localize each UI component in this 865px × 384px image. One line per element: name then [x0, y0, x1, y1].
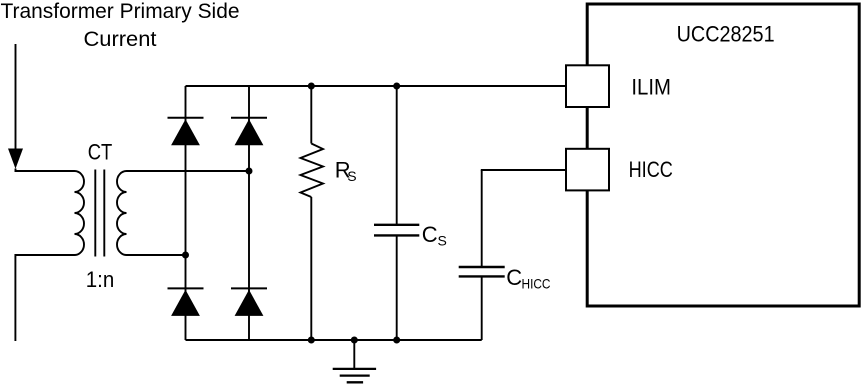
- label CHICC: [506, 265, 550, 291]
- transformer T1 core: [95, 170, 104, 257]
- svg-text:HICC: HICC: [629, 157, 673, 182]
- resistor RS: [301, 86, 324, 340]
- svg-text:S: S: [438, 233, 447, 249]
- pin HICC box: [566, 149, 609, 191]
- node CS bottom: [393, 337, 400, 344]
- node resistor top: [308, 83, 315, 90]
- wire top rail: [186, 85, 567, 87]
- svg-text:ILIM: ILIM: [631, 75, 671, 100]
- pin ILIM box: [566, 65, 609, 107]
- svg-text:S: S: [347, 168, 356, 184]
- wire bottom rail: [186, 339, 482, 341]
- diode D1: [168, 118, 204, 146]
- svg-text:CT: CT: [88, 140, 113, 165]
- wire primary top: [15, 170, 75, 172]
- svg-text:Current: Current: [84, 27, 157, 51]
- IC U1 UCC28251 box: [587, 4, 859, 306]
- label: Transformer Primary Side Current: [1, 0, 240, 51]
- wire primary input with arrow: [8, 44, 23, 171]
- node secondary bottom junction: [182, 252, 189, 259]
- ground: [333, 340, 376, 382]
- wire secondary top to bridge: [127, 170, 250, 172]
- svg-text:C: C: [422, 222, 438, 247]
- transformer T1 secondary winding: [117, 171, 127, 255]
- node CS top: [393, 83, 400, 90]
- transformer T1 primary winding: [75, 171, 85, 255]
- capacitor CS: [374, 86, 419, 340]
- svg-text:Transformer Primary Side: Transformer Primary Side: [1, 0, 240, 23]
- node secondary top junction: [246, 168, 253, 175]
- diode D2: [231, 118, 267, 146]
- diode D3: [168, 288, 204, 316]
- label CS: [422, 222, 447, 248]
- label RS: [335, 158, 357, 184]
- diode D4: [231, 288, 267, 316]
- wire primary bottom return: [15, 255, 74, 341]
- wire CHICC to HICC pin: [481, 169, 566, 171]
- svg-text:C: C: [506, 265, 522, 290]
- wire secondary bottom to bridge: [127, 254, 186, 256]
- node resistor bottom: [308, 337, 315, 344]
- node ground junction: [351, 337, 358, 344]
- svg-text:HICC: HICC: [522, 276, 551, 292]
- wire bridge right branch: [248, 86, 250, 340]
- wire bridge left branch: [185, 86, 187, 340]
- svg-text:1:n: 1:n: [86, 267, 115, 292]
- svg-text:UCC28251: UCC28251: [677, 22, 775, 47]
- capacitor CHICC: [459, 170, 505, 340]
